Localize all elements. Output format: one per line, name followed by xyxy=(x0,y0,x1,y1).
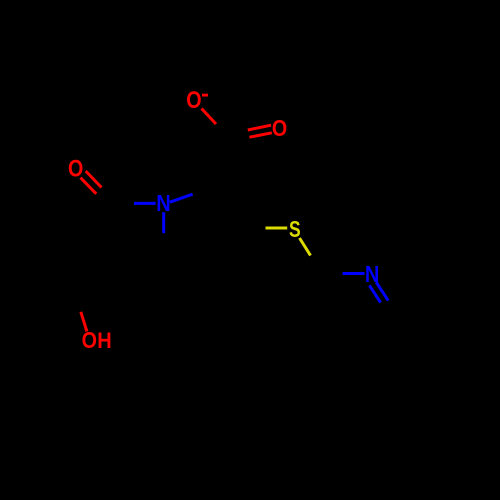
bond N-C vertical half xyxy=(162,212,165,233)
bond O--C carboxylate half xyxy=(202,109,217,125)
bond C-S horizontal half xyxy=(266,227,288,230)
bond CH2-OH half xyxy=(81,312,87,332)
bond C=O upper half line xyxy=(248,125,271,130)
bond C-N imine single half xyxy=(343,272,365,275)
ketone C=O upper half line xyxy=(86,171,102,188)
bond S-CH diagonal half xyxy=(300,238,311,256)
ketone C=O lower half line xyxy=(81,178,97,194)
svg-text:H: H xyxy=(97,329,111,353)
svg-text:O: O xyxy=(82,328,97,354)
svg-text:O: O xyxy=(186,86,201,113)
bond N-C2 upright half xyxy=(170,194,193,202)
imine N=C double bond upper half line xyxy=(376,282,388,300)
svg-text:O: O xyxy=(272,115,287,141)
bond C=O lower half line xyxy=(249,133,271,137)
imine N=C double bond lower half line xyxy=(369,285,380,302)
bond C(=O)-N half xyxy=(134,202,156,205)
carboxylate O minus label xyxy=(186,86,208,113)
svg-text:N: N xyxy=(156,189,170,216)
